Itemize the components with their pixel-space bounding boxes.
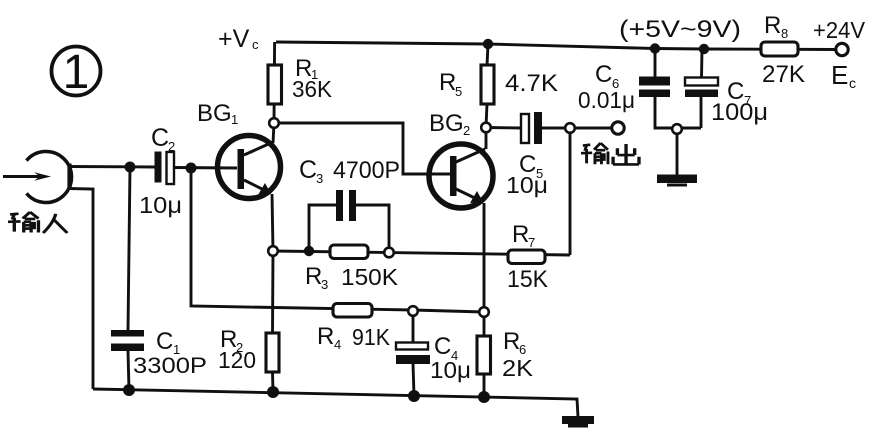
resistor R4 [333, 304, 372, 318]
wire C7 top [700, 49, 703, 78]
node R4/emitter/R6 junction [479, 307, 489, 317]
node rail R6 dot [478, 391, 490, 403]
wire C4 branch [413, 311, 414, 396]
svg-text:+V: +V [218, 25, 250, 53]
svg-text:C: C [595, 61, 612, 88]
label C2 10u [139, 124, 182, 218]
svg-text:2: 2 [168, 139, 175, 154]
svg-text:C: C [156, 328, 173, 355]
label BG2 [429, 110, 470, 138]
svg-text:R: R [439, 69, 456, 96]
svg-text:150K: 150K [341, 264, 399, 290]
wire BG1 collector up through R1 to top rail [273, 42, 275, 143]
capacitor C7 [685, 78, 718, 98]
svg-text:R: R [764, 12, 781, 39]
label +24V Ec [813, 17, 866, 91]
capacitor C4 [396, 343, 430, 365]
svg-text:5: 5 [455, 84, 462, 99]
wire BG2 collector node to C5 [486, 126, 521, 129]
wire C6/C7 node to ground [676, 132, 679, 175]
capacitor C2 [155, 152, 175, 185]
ground (supply filter) [657, 175, 697, 187]
node top rail C6 dot [650, 43, 660, 53]
svg-text:120: 120 [218, 347, 256, 373]
svg-text:8: 8 [781, 26, 788, 41]
node C6/C7 junction [672, 124, 682, 134]
svg-text:BG: BG [197, 100, 232, 127]
transistor BG1 [218, 136, 281, 199]
label C7 100u [711, 78, 768, 126]
wire C5 to output terminal [542, 127, 611, 130]
node top rail C7 dot [699, 44, 709, 54]
node rail C4 dot [408, 390, 420, 402]
label R2 120 [218, 326, 256, 373]
svg-text:4700P: 4700P [333, 157, 400, 184]
capacitor C3 [336, 190, 356, 221]
input connector [3, 152, 72, 203]
svg-text:3: 3 [321, 277, 328, 292]
svg-text:C: C [299, 156, 317, 184]
svg-text:15K: 15K [507, 266, 548, 293]
node R3 right junction [384, 248, 394, 258]
label R1 36K [292, 55, 333, 102]
svg-text:0.01μ: 0.01μ [578, 87, 635, 113]
label C5 10u [506, 151, 548, 198]
resistor R3 [330, 245, 368, 259]
svg-text:10μ: 10μ [430, 357, 471, 383]
wire BG1 collector node to BG2 base [274, 123, 450, 174]
svg-text:4: 4 [334, 337, 341, 352]
node C5/output/R7 junction [565, 123, 575, 133]
resistor R1 [268, 65, 282, 104]
svg-text:10μ: 10μ [506, 172, 548, 198]
wire BG1 emitter down to node [272, 194, 273, 251]
wire C6 branch [655, 49, 701, 129]
node BG1 collector junction [269, 118, 279, 128]
node rail R2 dot [267, 386, 279, 398]
wire BG2 collector up [485, 127, 488, 149]
label +Vc [218, 25, 259, 53]
label C1 3300P [133, 328, 207, 378]
svg-text:3300P: 3300P [133, 353, 207, 378]
wire BG2 emitter down through R6 to rail [483, 203, 486, 397]
svg-text:R: R [305, 263, 322, 290]
wire input top tap to C2 [69, 165, 155, 168]
wire C2 to BG1 base [174, 166, 237, 169]
svg-text:7: 7 [528, 235, 535, 250]
capacitor C1 [111, 330, 144, 351]
svg-text:4.7K: 4.7K [505, 70, 558, 97]
svg-text:c: c [252, 37, 259, 52]
figure number 1 [52, 46, 101, 99]
wire bias branch: C2 node down and across R4 to emitter node [191, 168, 484, 312]
resistor R5 [481, 44, 494, 127]
resistor R8 [761, 42, 798, 56]
wire C3 loop [309, 205, 389, 252]
node C3/R3 left dot [304, 246, 314, 256]
wire R2 branch [271, 251, 274, 392]
transistor BG2 [429, 144, 493, 208]
svg-text:3: 3 [316, 171, 323, 186]
svg-text:36K: 36K [292, 76, 333, 102]
svg-text:C: C [151, 124, 169, 152]
output terminal [612, 122, 624, 134]
ground (bottom) [562, 416, 594, 428]
node R5/C5/BG2 collector junction [481, 123, 491, 133]
capacitor C5 [521, 112, 542, 144]
svg-text:R: R [503, 328, 520, 355]
svg-text:1: 1 [63, 46, 90, 99]
resistor R2 [266, 333, 279, 372]
label BG1 [197, 100, 238, 127]
label R4 91K [317, 323, 391, 352]
svg-text:2K: 2K [502, 355, 534, 381]
svg-text:R: R [317, 323, 334, 350]
svg-text:c: c [849, 75, 856, 91]
label R6 2K [502, 328, 534, 381]
terminal +24V [836, 43, 848, 55]
svg-text:R: R [512, 221, 529, 248]
svg-text:27K: 27K [762, 61, 805, 88]
svg-text:C: C [434, 333, 451, 360]
wire input lower tap [69, 189, 93, 390]
svg-text:10μ: 10μ [139, 192, 182, 218]
label R5 4.7K [439, 69, 558, 99]
wire C1 branch down [128, 167, 130, 390]
svg-text:100μ: 100μ [711, 99, 768, 126]
wire bottom rail [93, 389, 578, 417]
node top rail R5 dot [483, 39, 493, 49]
label C4 10u [430, 333, 471, 383]
node emitter/R3/R2 junction [268, 246, 278, 256]
node rail C1 dot [123, 384, 135, 396]
resistor R6 [477, 336, 491, 374]
node input/C1 junction dot [125, 162, 136, 173]
svg-text:91K: 91K [352, 324, 391, 350]
resistor R7 [508, 250, 545, 264]
capacitor C6 [639, 77, 670, 98]
label C3 4700P [299, 156, 400, 186]
node C2/BG1 base junction dot [186, 163, 197, 174]
svg-text:2: 2 [463, 123, 470, 138]
svg-text:E: E [831, 60, 848, 90]
wire top rail [276, 42, 836, 50]
label C6 0.01u [578, 61, 635, 113]
node R4/C4 junction [408, 306, 418, 316]
svg-text:BG: BG [429, 110, 464, 137]
label R7 15K [507, 221, 548, 293]
label R8 27K [762, 12, 805, 88]
svg-text:+24V: +24V [813, 17, 866, 43]
label 输出 [581, 143, 639, 164]
svg-text:1: 1 [231, 112, 238, 127]
svg-text:(+5V~9V): (+5V~9V) [619, 16, 741, 43]
label 输入 [8, 212, 67, 233]
wire feedback line R3 R7 row [273, 134, 570, 255]
label R3 150K [305, 263, 399, 292]
